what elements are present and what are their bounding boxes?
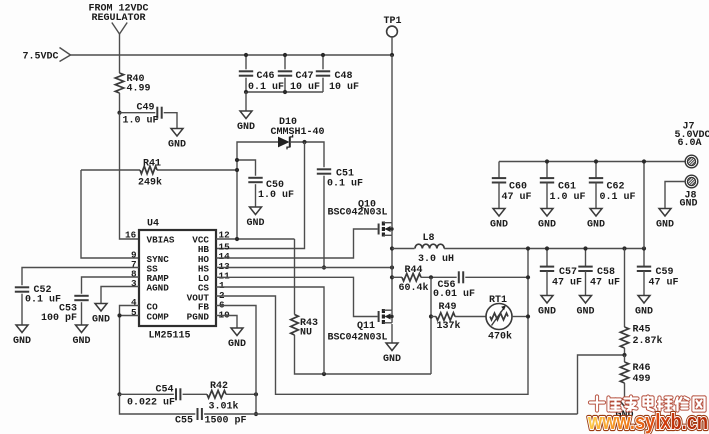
svg-text:GND: GND	[635, 307, 653, 318]
watermark url www.sylxb.cn	[587, 409, 708, 434]
wire J7 rail to output rail	[643, 162, 645, 249]
capacitor C52	[15, 285, 61, 306]
capacitor C54	[127, 385, 180, 409]
wire rail to C60	[498, 162, 500, 179]
resistor R49	[436, 313, 455, 321]
capacitor C53	[74, 296, 88, 300]
svg-text:TP1: TP1	[384, 16, 402, 27]
svg-text:C60: C60	[509, 181, 527, 192]
resistor R45	[620, 324, 662, 348]
resistor R46	[620, 362, 650, 385]
svg-text:www.sylxb.cn: www.sylxb.cn	[587, 409, 708, 434]
resistor R43 (NU)	[291, 315, 299, 336]
svg-text:0.1 uF: 0.1 uF	[600, 192, 636, 203]
wire COMP	[120, 315, 140, 317]
svg-text:0.1 uF: 0.1 uF	[25, 295, 61, 306]
wire R49 to RT1	[455, 316, 486, 318]
svg-text:BSC042N03L: BSC042N03L	[328, 332, 388, 343]
capacitor C56	[433, 271, 475, 300]
wire HO to Q10 gate	[216, 229, 378, 258]
wire R49 left stub	[431, 316, 436, 318]
svg-text:GND: GND	[576, 307, 594, 318]
capacitor C51	[317, 169, 363, 190]
wire TP1 to rail	[391, 37, 393, 55]
svg-text:R45: R45	[633, 324, 651, 335]
wire J8 to ground	[665, 182, 686, 209]
svg-text:GND: GND	[237, 122, 255, 133]
node rail C46 tap	[244, 53, 248, 57]
wire C49 right to ground	[164, 113, 177, 129]
thermistor RT1	[486, 295, 512, 343]
wire rail to C46	[245, 55, 247, 69]
ground C57	[538, 271, 556, 318]
node R40/C49 junction	[117, 111, 121, 115]
svg-text:GND: GND	[228, 339, 246, 350]
wire R41 right	[157, 169, 237, 171]
svg-text:0.01 uF: 0.01 uF	[433, 289, 475, 300]
svg-text:100 pF: 100 pF	[41, 313, 77, 324]
resistor R40	[115, 73, 150, 95]
capacitor C62	[589, 178, 636, 203]
node VCC/diode junction	[235, 237, 239, 241]
capacitor C55	[175, 408, 247, 427]
svg-text:C61: C61	[558, 181, 576, 192]
wire HS line	[216, 267, 392, 269]
svg-text:C57: C57	[559, 267, 577, 278]
capacitor C50	[248, 178, 294, 201]
svg-text:VBIAS: VBIAS	[147, 235, 175, 246]
svg-text:C55: C55	[175, 416, 193, 427]
svg-text:GND: GND	[92, 315, 110, 326]
svg-text:47 uF: 47 uF	[649, 277, 679, 288]
svg-text:R41: R41	[143, 158, 161, 169]
svg-text:GND: GND	[490, 220, 508, 231]
wire R40 to C49 node	[119, 93, 121, 113]
wire C56 right	[465, 276, 528, 278]
svg-text:GND: GND	[246, 218, 264, 229]
wire 12VDC arrow to rail	[119, 34, 121, 73]
svg-text:6.0A: 6.0A	[678, 138, 702, 149]
node rail C47 tap	[283, 53, 287, 57]
node FB/C55 junction	[254, 412, 258, 416]
wire SYNC vertical	[81, 170, 139, 258]
svg-text:47 uF: 47 uF	[552, 277, 582, 288]
svg-text:60.4k: 60.4k	[399, 282, 429, 294]
capacitor C60	[492, 178, 532, 203]
wire C54 to R42	[183, 393, 207, 395]
wire Q10 drain from rail	[391, 55, 393, 223]
node C56/VOUT vertical	[526, 275, 530, 279]
svg-text:1500 pF: 1500 pF	[205, 416, 247, 427]
svg-text:470k: 470k	[488, 330, 512, 342]
wire rail to C57	[546, 249, 548, 267]
svg-text:GND: GND	[538, 220, 556, 231]
node C50 tap	[235, 158, 239, 162]
wire C47 bottom	[284, 78, 286, 92]
svg-text:R44: R44	[405, 265, 423, 276]
wire rail to C48	[322, 55, 324, 69]
wire rail to C47	[284, 55, 286, 69]
ground C60	[490, 183, 508, 231]
svg-text:137k: 137k	[437, 320, 461, 332]
node rail C58 tap	[583, 246, 587, 250]
node Q11 body tie	[390, 315, 393, 318]
node R41/VCC vertical junction	[235, 168, 239, 172]
node rail/TP1/Q10 junction	[390, 53, 394, 57]
svg-text:16: 16	[125, 229, 137, 240]
wire VCC vertical to diode anode	[237, 142, 278, 239]
wire SS to C52	[22, 268, 139, 286]
svg-text:C59: C59	[656, 267, 674, 278]
ground PGND	[228, 328, 246, 350]
node Q10 body tie	[390, 227, 393, 230]
resistor R44	[402, 274, 421, 282]
input arrow from 12VDC regulator	[112, 23, 127, 35]
capacitor C61	[540, 178, 586, 203]
node R45/R46 divider	[622, 353, 626, 357]
capacitor C48	[316, 71, 359, 93]
svg-text:249k: 249k	[138, 177, 162, 189]
svg-text:0.1 uF: 0.1 uF	[327, 179, 363, 190]
node J7 rail C61 tap	[545, 159, 549, 163]
wire comp to C54	[120, 393, 174, 395]
svg-text:R42: R42	[210, 381, 228, 392]
svg-text:COMP: COMP	[147, 311, 170, 322]
svg-text:GND: GND	[538, 307, 556, 318]
wire L8 to output rail	[444, 248, 644, 250]
ground C58	[576, 271, 594, 318]
wire input cap ground bus	[246, 91, 323, 93]
node HS/switch junction	[390, 265, 394, 269]
node C46 bus junction	[244, 90, 248, 94]
wire CS pin line	[216, 287, 324, 374]
ground C59	[635, 271, 653, 318]
wire PGND to ground	[216, 316, 237, 329]
node rail corner to J7	[642, 246, 646, 250]
svg-text:C47: C47	[296, 71, 314, 82]
ground AGND	[92, 304, 110, 326]
wire HB vertical	[216, 142, 305, 249]
svg-text:1.0 uF: 1.0 uF	[123, 116, 159, 127]
wire FB vertical	[216, 306, 256, 415]
svg-text:GND: GND	[656, 220, 674, 231]
svg-text:R46: R46	[633, 363, 651, 374]
test point TP1	[387, 26, 398, 37]
wire input rail 7.5VDC	[71, 54, 393, 56]
wire R44 left	[392, 276, 402, 278]
resistor R42	[207, 391, 226, 399]
node C51/HS junction	[322, 265, 326, 269]
ground R46	[615, 383, 633, 421]
node R49 tap	[429, 314, 433, 318]
wire rail to C62	[595, 162, 597, 179]
svg-text:BSC042N03L: BSC042N03L	[328, 207, 388, 218]
wire switch node vertical	[391, 235, 393, 310]
wire R49 branch vertical	[430, 277, 432, 374]
node J7 rail junction	[642, 159, 646, 163]
svg-text:47 uF: 47 uF	[502, 192, 532, 203]
wire VCC pin line	[216, 238, 295, 240]
svg-text:GND: GND	[168, 140, 186, 151]
capacitor C46	[239, 71, 284, 93]
svg-text:LM25115: LM25115	[149, 331, 191, 342]
svg-text:C62: C62	[607, 181, 625, 192]
node switch/L8 tap	[390, 246, 394, 250]
wire rail to C58	[585, 249, 587, 267]
svg-text:7.5VDC: 7.5VDC	[23, 52, 59, 63]
wire RT1 to VOUT vertical	[512, 316, 528, 318]
capacitor C49	[123, 103, 162, 127]
svg-text:3.01k: 3.01k	[209, 400, 239, 412]
capacitor C57	[540, 267, 582, 289]
wire LO to Q11 gate	[216, 277, 378, 316]
svg-text:R49: R49	[439, 302, 457, 313]
capacitor C59	[637, 267, 679, 289]
svg-text:499: 499	[633, 374, 651, 385]
watermark chinese text	[590, 397, 705, 411]
svg-text:C46: C46	[257, 71, 275, 82]
svg-text:GND: GND	[680, 198, 698, 209]
svg-text:NU: NU	[300, 327, 312, 338]
wire diode cathode to C51	[290, 142, 324, 167]
svg-text:3.0 uH: 3.0 uH	[418, 254, 454, 265]
node switch/R44 tap	[390, 275, 394, 279]
wire Q11 source to ground	[391, 324, 393, 343]
node CO/COMP junction	[117, 313, 121, 317]
svg-text:GND: GND	[587, 220, 605, 231]
node J7 rail C62 tap	[594, 159, 598, 163]
wire J7 rail	[499, 161, 686, 163]
wire switch to L8	[392, 248, 415, 250]
wire C50 branch	[237, 160, 256, 176]
svg-text:C58: C58	[597, 267, 615, 278]
capacitor C47	[278, 71, 320, 93]
op-amp U4 LM25115 controller	[139, 230, 216, 326]
svg-text:L8: L8	[423, 233, 435, 244]
wire R42 to FB node	[226, 393, 256, 395]
wire rail to C59	[643, 249, 645, 267]
ground C62	[587, 183, 605, 231]
ground C53	[72, 302, 90, 347]
svg-text:10 uF: 10 uF	[329, 82, 359, 93]
input chevron 7.5VDC	[60, 48, 71, 62]
wire rail to R45	[624, 249, 626, 328]
wire RAMP to C53	[82, 277, 140, 294]
wire rail to C61	[546, 162, 548, 179]
wire VBIAS feed	[120, 113, 140, 239]
svg-text:47 uF: 47 uF	[590, 277, 620, 288]
wire C46 bottom	[245, 78, 247, 92]
svg-text:2.87k: 2.87k	[633, 335, 663, 347]
wire CO down	[120, 306, 140, 395]
ground C50	[246, 184, 264, 229]
connector J8	[684, 175, 700, 188]
ground J8	[656, 209, 674, 231]
svg-text:RT1: RT1	[489, 295, 507, 306]
transistor Q10 BSC042N03L	[328, 199, 393, 236]
wire VOUT sense loop	[216, 249, 528, 395]
wire R41 line	[81, 169, 140, 171]
svg-text:0.022 uF: 0.022 uF	[127, 397, 175, 408]
svg-text:GND: GND	[72, 336, 90, 347]
svg-text:AGND: AGND	[147, 283, 170, 294]
node C47 bus junction	[283, 90, 287, 94]
svg-text:GND: GND	[13, 336, 31, 347]
capacitor C58	[578, 267, 620, 289]
wire R46 top	[624, 355, 626, 362]
svg-text:1.0 uF: 1.0 uF	[550, 192, 586, 203]
ground C49	[168, 129, 186, 151]
wire C55 to divider line	[204, 413, 577, 415]
node CS line junction	[322, 372, 326, 376]
node FB/R42 junction	[254, 392, 258, 396]
node rail C57 tap	[545, 246, 549, 250]
node RT1/VOUT vertical	[526, 314, 530, 318]
node rail R45 tap	[622, 246, 626, 250]
diode D10 CMMSH1-40	[278, 135, 293, 150]
connector J7	[684, 155, 700, 168]
wire R43 vertical top	[294, 239, 296, 315]
resistor R41	[140, 166, 157, 174]
svg-text:1.0 uF: 1.0 uF	[258, 190, 294, 201]
wire comp to C55	[120, 394, 196, 414]
wire R45 to node	[624, 348, 626, 355]
wire AGND to ground	[101, 287, 139, 304]
ground Q11 source	[383, 343, 401, 365]
node R44/C56/R49 junction	[429, 275, 433, 279]
svg-text:Q11: Q11	[357, 321, 375, 332]
ground input caps	[237, 92, 255, 133]
node rail C48 tap	[321, 53, 325, 57]
transistor Q11 BSC042N03L	[328, 309, 393, 343]
wire C51 bottom to HS	[323, 176, 325, 268]
wire R43 bottom to CS line	[295, 335, 432, 374]
svg-text:C54: C54	[156, 385, 174, 396]
svg-text:C48: C48	[335, 71, 353, 82]
wire C48 bottom	[322, 78, 324, 92]
inductor L8	[415, 233, 454, 265]
node comp network corner	[117, 392, 121, 396]
svg-text:REGULATOR: REGULATOR	[92, 13, 146, 24]
svg-text:CMMSH1-40: CMMSH1-40	[271, 127, 325, 138]
wire divider to R45/R46 node	[578, 355, 625, 414]
wire R44 to C56	[421, 276, 457, 278]
wire C49 left	[120, 112, 156, 114]
ground C61	[538, 183, 556, 231]
svg-text:4.99: 4.99	[127, 84, 151, 95]
svg-text:U4: U4	[147, 218, 159, 229]
svg-text:C49: C49	[137, 103, 155, 114]
ground C52	[13, 294, 31, 347]
svg-text:GND: GND	[383, 354, 401, 365]
svg-text:PGND: PGND	[187, 311, 210, 322]
node diode cathode / HB tap	[302, 140, 306, 144]
node output/VOUT loop	[526, 246, 530, 250]
svg-text:3: 3	[131, 278, 137, 289]
